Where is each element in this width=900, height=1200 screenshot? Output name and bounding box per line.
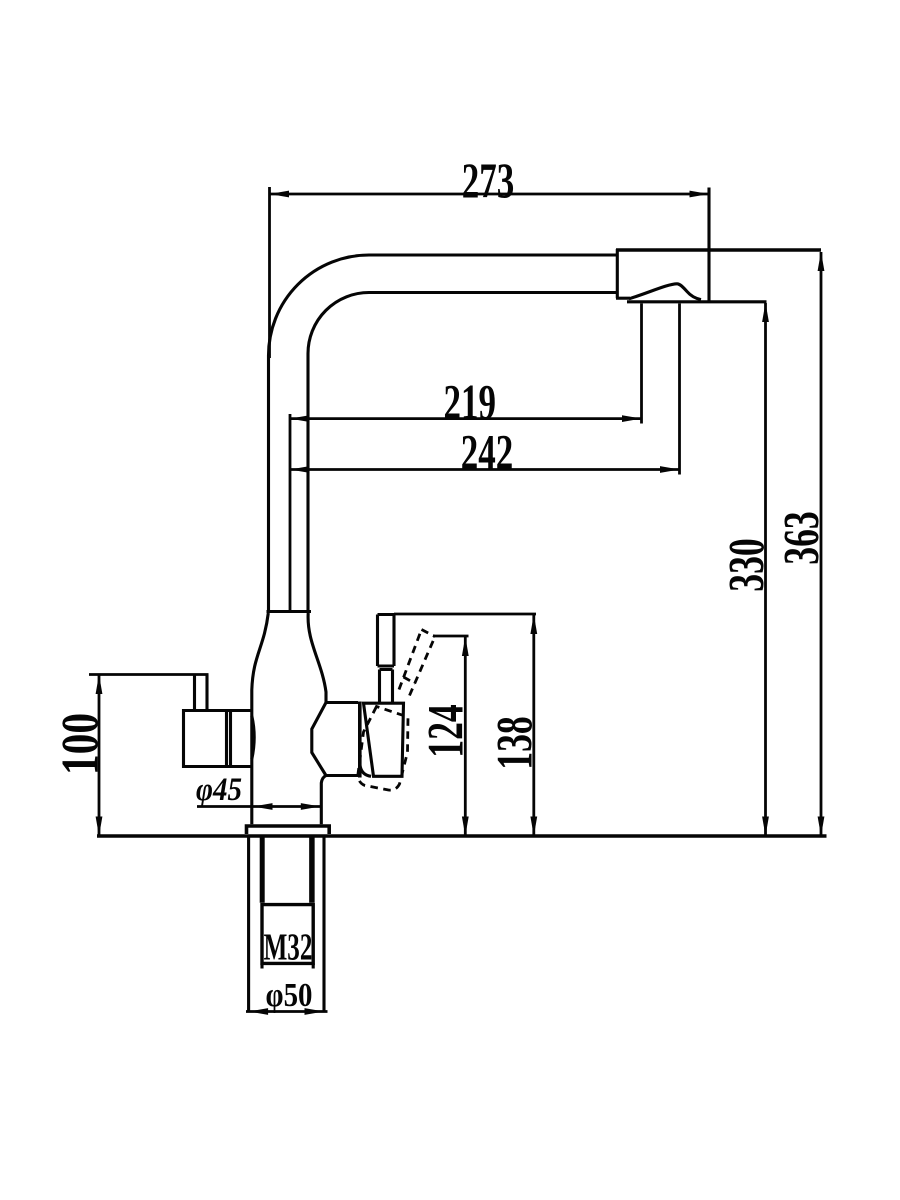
dim 138 line: [532, 615, 535, 835]
arrow 124 bottom: [462, 817, 469, 837]
dashed lever rod end cap: [422, 630, 436, 637]
M32 thread box: [262, 905, 313, 964]
arrow phi45 right: [301, 803, 321, 810]
left handle stem right: [205, 675, 208, 711]
left handle mounting line: [229, 711, 232, 767]
center extension line: [289, 414, 292, 611]
left boss bottom connector: [231, 765, 252, 768]
shank left line: [247, 838, 250, 1011]
right stem upper: [378, 615, 395, 667]
left handle stem left: [193, 675, 196, 711]
dashed lever rod left line: [399, 630, 422, 690]
left boss intersection arc: [252, 716, 254, 759]
dim 273 left extension: [268, 187, 271, 358]
svg-text:219: 219: [443, 376, 495, 430]
arrow 100 bottom: [96, 817, 103, 837]
M32 box corner ticks: [262, 963, 313, 968]
drop extension from head (242): [678, 304, 681, 475]
dim 100 line: [98, 675, 101, 835]
arrow 273 left: [270, 191, 290, 198]
svg-text:138: 138: [486, 716, 543, 770]
dim 124 line: [464, 637, 467, 835]
right mounting face: [358, 702, 362, 778]
arrow 242 right: [660, 466, 680, 473]
dim 138 extension: [394, 613, 536, 616]
inner pipe right: [309, 838, 315, 903]
left boss top connector: [231, 709, 252, 712]
dim 124 extension: [433, 635, 469, 638]
dashed rotated grip outline: [358, 707, 408, 791]
body right profile upper: [308, 613, 326, 703]
dim 330 line: [764, 303, 767, 835]
dim 219 line: [290, 417, 642, 420]
inner pipe left: [260, 838, 265, 903]
svg-text:100: 100: [52, 713, 110, 775]
right grip bottom-left arc: [360, 766, 371, 777]
arrow 363 top: [818, 252, 825, 272]
dim 100 extension: [89, 673, 209, 676]
arrow 219 left: [290, 415, 310, 422]
dim phi50 line: [246, 1010, 328, 1013]
spout-body joint line: [267, 610, 312, 613]
arrow 100 top: [96, 675, 103, 695]
svg-text:φ50: φ50: [266, 976, 313, 1014]
left handle grip: [184, 711, 231, 767]
svg-text:124: 124: [417, 704, 474, 758]
svg-text:330: 330: [718, 538, 775, 592]
body left profile: [252, 613, 268, 824]
shank right line: [322, 838, 325, 1011]
arrow 138 bottom: [530, 817, 537, 837]
body right profile lower: [321, 776, 326, 825]
arrow 363 bottom: [818, 817, 825, 837]
left handle grip inner line: [225, 711, 228, 767]
spout head top line: [616, 248, 821, 252]
spout head bottom line: [627, 300, 767, 303]
spout inner curve: [308, 293, 616, 612]
arrow phi50 left: [249, 1008, 269, 1015]
svg-text:363: 363: [773, 511, 830, 565]
arrow phi45 left: [253, 803, 273, 810]
dim phi45 line: [197, 805, 323, 808]
right stem lower: [380, 670, 393, 704]
arrow 219 right: [622, 415, 642, 422]
drop extension from head (219): [640, 304, 643, 424]
arrow phi50 right: [305, 1008, 325, 1015]
dim 273 line: [270, 193, 710, 196]
spout head left edge: [616, 249, 619, 298]
arrow 242 left: [290, 466, 310, 473]
body right profile behind boss: [312, 703, 326, 776]
dashed lever rod right line: [410, 637, 436, 696]
svg-text:φ45: φ45: [196, 770, 242, 807]
arrow 330 bottom: [762, 817, 769, 837]
right boss top line: [326, 701, 358, 704]
right boss bottom line: [326, 774, 358, 777]
svg-text:273: 273: [462, 154, 514, 208]
aerator wave: [629, 284, 701, 300]
spout head right edge / 273 extension: [707, 188, 710, 302]
dim 363 line: [820, 252, 823, 835]
arrow 273 right: [690, 191, 710, 198]
arrow 124 top: [462, 637, 469, 657]
base flange: [247, 826, 330, 834]
counter baseline: [97, 834, 827, 837]
spout outer curve: [269, 255, 617, 612]
dim 242 line: [290, 468, 680, 471]
arrow 330 top: [762, 303, 769, 323]
svg-text:M32: M32: [264, 925, 313, 967]
dashed lever rod joint tick: [404, 677, 416, 684]
arrow 138 top: [530, 615, 537, 635]
svg-text:242: 242: [461, 426, 513, 480]
right grip solid: [364, 703, 404, 776]
spout head bottom-left: [616, 297, 630, 300]
